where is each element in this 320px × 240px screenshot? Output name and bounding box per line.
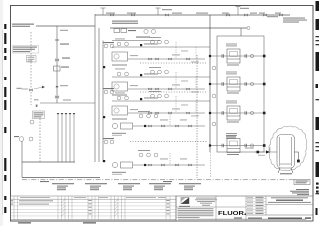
svg-text:FLUOR: FLUOR [218, 210, 245, 217]
